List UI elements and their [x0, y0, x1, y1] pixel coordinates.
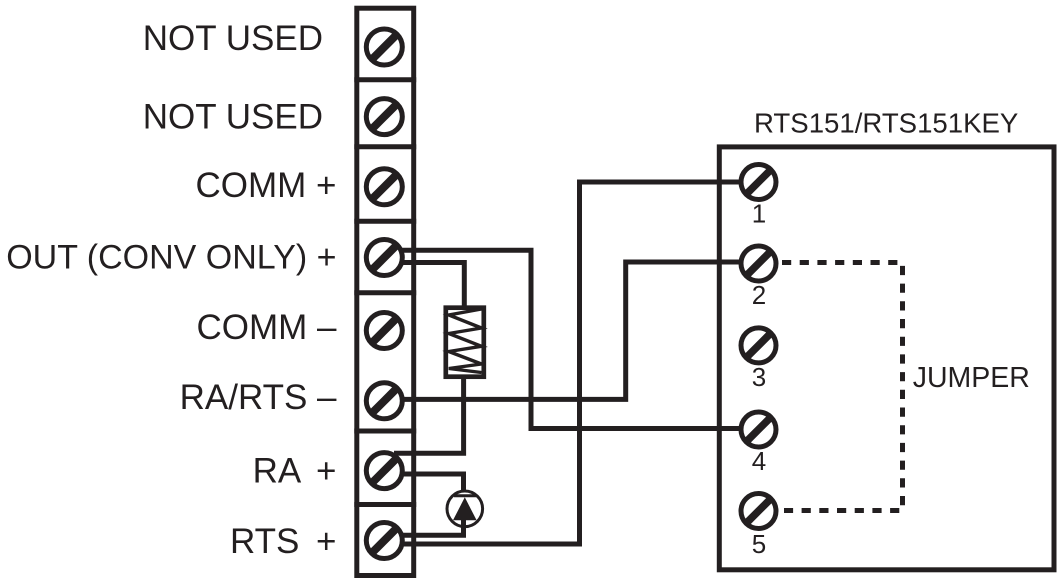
screw terminal 3 (RTS151) [741, 328, 776, 363]
svg-text:JUMPER: JUMPER [913, 362, 1030, 394]
screw terminal COMM + [366, 169, 402, 205]
terminal block divider 6 [354, 502, 416, 507]
svg-text:3: 3 [752, 362, 766, 392]
wire OUT+ to resistor top [402, 263, 464, 306]
screw terminal NOT USED (row 2) [366, 99, 402, 135]
svg-text:COMM –: COMM – [197, 308, 338, 347]
resistor R1 [446, 308, 484, 377]
svg-text:5: 5 [752, 529, 766, 559]
RTS151/RTS151KEY box U1 [719, 147, 1054, 570]
svg-text:1: 1 [752, 199, 766, 229]
svg-text:2: 2 [752, 280, 766, 310]
screw terminal COMM - [366, 313, 402, 349]
svg-text:4: 4 [752, 446, 766, 476]
wire RA/RTS- to terminal 2 [404, 262, 741, 399]
wire resistor bottom to RA+ [394, 379, 464, 454]
screw terminal 4 (RTS151) [741, 412, 776, 447]
svg-text:RTS +: RTS + [230, 522, 337, 561]
terminal block divider 3 [354, 219, 416, 224]
diode CR1 [447, 491, 483, 527]
screw terminal RTS + [366, 523, 402, 559]
terminal block divider 1 [354, 77, 416, 82]
wire RA+ to diode top [404, 474, 464, 491]
svg-text:RA/RTS –: RA/RTS – [180, 378, 337, 417]
svg-text:COMM +: COMM + [196, 166, 337, 205]
svg-text:OUT (CONV ONLY) +: OUT (CONV ONLY) + [6, 239, 336, 277]
screw terminal 1 (RTS151) [741, 165, 776, 200]
wire diode bottom to RTS+ [403, 519, 464, 535]
screw terminal RA/RTS - [366, 383, 402, 419]
jumper dashed wire terminal 2 to terminal 5 [782, 263, 903, 511]
screw terminal NOT USED (row 1) [366, 29, 402, 65]
svg-text:RA +: RA + [253, 451, 337, 490]
svg-text:RTS151/RTS151KEY: RTS151/RTS151KEY [754, 108, 1018, 139]
terminal block divider 2 [354, 144, 416, 149]
wire OUT+ to terminal 4 [402, 250, 741, 428]
svg-text:NOT USED: NOT USED [143, 98, 323, 137]
terminal block divider 4 [354, 290, 416, 295]
screw terminal 5 (RTS151) [741, 494, 776, 529]
wire RTS+ to terminal 1 [403, 182, 741, 544]
screw terminal OUT (CONV ONLY) + [366, 240, 402, 276]
svg-text:NOT USED: NOT USED [143, 19, 323, 58]
terminal block divider 5 [354, 429, 416, 434]
screw terminal RA + [366, 453, 402, 489]
screw terminal 2 (RTS151) [741, 246, 776, 281]
terminal block TB1 outline [357, 8, 414, 575]
